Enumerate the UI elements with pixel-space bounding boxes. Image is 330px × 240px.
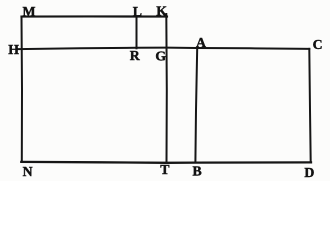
svg-text:L: L — [133, 4, 142, 19]
svg-text:T: T — [160, 162, 169, 177]
svg-text:M: M — [23, 4, 36, 19]
svg-text:C: C — [313, 37, 323, 52]
svg-text:D: D — [304, 165, 314, 180]
svg-text:B: B — [193, 164, 202, 179]
svg-text:N: N — [23, 164, 33, 179]
svg-text:K: K — [156, 3, 167, 18]
svg-text:R: R — [130, 48, 141, 63]
svg-text:A: A — [196, 35, 206, 50]
svg-text:H: H — [8, 42, 19, 57]
svg-text:G: G — [155, 48, 166, 63]
